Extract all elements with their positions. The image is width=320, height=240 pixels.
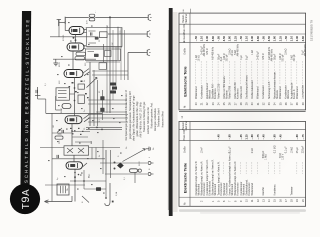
solder speck bbox=[92, 120, 94, 121]
wire bbox=[65, 16, 89, 18]
wire bbox=[84, 32, 87, 34]
table corner tab bbox=[183, 8, 191, 13]
solder speck bbox=[80, 175, 82, 176]
table row 27 bbox=[233, 36, 239, 106]
wire bbox=[87, 46, 123, 48]
svg-text:15 kΩ: 15 kΩ bbox=[285, 48, 288, 55]
svg-text:Widerstand: Widerstand bbox=[195, 86, 198, 99]
junction bbox=[78, 174, 80, 176]
capacitor C6 bbox=[61, 130, 63, 133]
wire bbox=[72, 51, 74, 70]
svg-text:0,3: 0,3 bbox=[99, 118, 101, 122]
svg-text:470 Ω: 470 Ω bbox=[206, 48, 209, 55]
svg-text:Sk: Sk bbox=[126, 147, 128, 149]
svg-text:2: 2 bbox=[201, 200, 204, 202]
wire bbox=[105, 173, 147, 175]
svg-text:–.50: –.50 bbox=[194, 36, 198, 42]
svg-text:1.10: 1.10 bbox=[200, 36, 204, 42]
mains cord bbox=[105, 183, 114, 206]
solder speck bbox=[58, 105, 60, 106]
solder speck bbox=[80, 134, 82, 135]
table row 12 bbox=[256, 134, 260, 202]
svg-text:1k: 1k bbox=[107, 26, 109, 28]
svg-text:Bestell-Nummer: Bestell-Nummer bbox=[182, 121, 188, 131]
svg-text:21: 21 bbox=[201, 102, 204, 105]
tick bbox=[83, 163, 87, 167]
loudspeaker jack bbox=[57, 20, 66, 27]
wire bbox=[84, 45, 86, 47]
solder speck bbox=[87, 74, 89, 75]
svg-text:2 kΩ: 2 kΩ bbox=[251, 148, 254, 153]
svg-text:8 µF: 8 µF bbox=[245, 55, 248, 60]
solder speck bbox=[91, 26, 93, 27]
table row 13 bbox=[261, 134, 267, 202]
svg-text:0,1 µF: 0,1 µF bbox=[285, 146, 288, 153]
solder speck bbox=[100, 168, 102, 169]
svg-text:27: 27 bbox=[234, 102, 237, 105]
svg-text:AM-ZF 468 kHz, FM-ZF 10,7 MHz.: AM-ZF 468 kHz, FM-ZF 10,7 MHz. bbox=[140, 101, 143, 137]
svg-text:31: 31 bbox=[257, 102, 260, 105]
ground bbox=[53, 59, 58, 66]
wire bbox=[40, 147, 64, 149]
wire bbox=[92, 70, 128, 72]
table row 30 bbox=[250, 36, 254, 106]
svg-text:AM 468 kHz: AM 468 kHz bbox=[237, 43, 240, 56]
table row 2 bbox=[200, 147, 206, 202]
solder speck bbox=[57, 74, 59, 75]
solder speck bbox=[75, 91, 77, 92]
svg-text:2.25: 2.25 bbox=[278, 36, 282, 42]
voltage notes bbox=[125, 89, 164, 141]
solder speck bbox=[91, 184, 93, 185]
svg-text:14: 14 bbox=[268, 199, 271, 202]
resistor R2 bbox=[75, 57, 85, 60]
wire bbox=[73, 155, 75, 162]
svg-text:37: 37 bbox=[291, 102, 294, 105]
solder speck bbox=[81, 81, 83, 83]
solder speck bbox=[121, 95, 123, 96]
junction bbox=[74, 180, 76, 182]
svg-text:0,1: 0,1 bbox=[124, 176, 126, 180]
svg-text:Sk: Sk bbox=[153, 148, 155, 150]
wire bbox=[50, 36, 96, 38]
wire bbox=[52, 158, 105, 160]
svg-text:0,1: 0,1 bbox=[45, 82, 47, 86]
table row 25 bbox=[222, 36, 228, 106]
svg-text:Größe: Größe bbox=[184, 146, 187, 153]
wire bbox=[134, 172, 136, 183]
table row 6 bbox=[223, 162, 229, 202]
svg-text:N: N bbox=[149, 168, 151, 170]
svg-text:–.50: –.50 bbox=[239, 36, 243, 42]
svg-text:4: 4 bbox=[212, 200, 215, 202]
svg-text:6: 6 bbox=[223, 200, 226, 202]
wire bbox=[88, 99, 127, 101]
table row 35 bbox=[278, 36, 284, 106]
svg-text:–.60: –.60 bbox=[250, 134, 254, 140]
wire bbox=[69, 93, 74, 95]
IF transformer B4 bbox=[64, 146, 89, 155]
svg-text:36: 36 bbox=[285, 102, 288, 105]
table row 8 bbox=[234, 161, 240, 202]
svg-text:L: L bbox=[149, 156, 151, 158]
table row 28 bbox=[239, 36, 243, 106]
svg-text:Widerstand: Widerstand bbox=[257, 86, 260, 99]
svg-text:12: 12 bbox=[257, 199, 260, 202]
capacitor C5 bbox=[78, 84, 84, 89]
wire bbox=[120, 28, 122, 80]
parts table group 2 bbox=[179, 121, 306, 207]
fuse F2 bbox=[84, 187, 106, 191]
svg-text:+ -: + - bbox=[95, 10, 97, 13]
wire bbox=[72, 131, 90, 133]
solder speck bbox=[113, 118, 115, 119]
wire bbox=[38, 98, 46, 100]
table row 26 bbox=[228, 36, 234, 106]
wire bbox=[88, 121, 128, 123]
wire bbox=[74, 78, 76, 116]
junction bbox=[74, 172, 76, 174]
wire bbox=[102, 140, 104, 174]
solder speck bbox=[112, 108, 114, 109]
AGC arrows bbox=[84, 115, 90, 122]
solder speck bbox=[70, 41, 72, 42]
wire bbox=[96, 111, 127, 113]
svg-text:300 pF: 300 pF bbox=[294, 54, 296, 62]
junction bbox=[74, 87, 76, 89]
svg-text:300: 300 bbox=[59, 140, 61, 144]
svg-text:25: 25 bbox=[99, 90, 101, 93]
terminal A7 bbox=[148, 173, 154, 176]
table row 23 bbox=[211, 36, 217, 106]
svg-text:0,1 µF: 0,1 µF bbox=[229, 146, 232, 153]
junction bbox=[74, 176, 76, 178]
wire bbox=[127, 53, 129, 81]
wire bbox=[84, 29, 87, 31]
svg-text:Größe: Größe bbox=[184, 47, 187, 54]
resistor R3 bbox=[99, 63, 106, 70]
switch S1 bbox=[114, 162, 124, 170]
svg-text:Tastensatz in Stellung TA gez.: Tastensatz in Stellung TA gez. bbox=[143, 101, 146, 132]
wire bbox=[84, 48, 86, 50]
solder speck bbox=[74, 130, 76, 131]
svg-text:32: 32 bbox=[262, 102, 265, 105]
solder speck bbox=[70, 128, 72, 129]
solder speck bbox=[88, 128, 90, 129]
wire bbox=[64, 17, 66, 30]
table row 20 bbox=[301, 134, 305, 202]
junction bbox=[83, 180, 85, 182]
wire bbox=[105, 150, 107, 173]
svg-text:1 kΩ: 1 kΩ bbox=[251, 50, 254, 55]
svg-text:29: 29 bbox=[246, 102, 249, 105]
junction bbox=[101, 129, 103, 131]
svg-text:Hannover West: Hannover West bbox=[161, 111, 164, 127]
IF transformer B3 bbox=[56, 88, 69, 100]
table row 20 bbox=[194, 36, 200, 106]
svg-text:28: 28 bbox=[240, 102, 243, 105]
terminal A6 bbox=[148, 162, 154, 165]
wire bbox=[51, 113, 53, 201]
svg-text:Widerstand: Widerstand bbox=[251, 183, 254, 196]
wire bbox=[56, 109, 62, 111]
table row 9 bbox=[239, 134, 245, 202]
junction bbox=[74, 177, 76, 179]
svg-text:10 kΩ: 10 kΩ bbox=[198, 55, 200, 61]
solder speck bbox=[78, 128, 80, 129]
wire bbox=[52, 132, 72, 134]
svg-text:–.75: –.75 bbox=[301, 134, 305, 140]
wire bbox=[55, 96, 57, 110]
page fold bar bbox=[168, 8, 178, 216]
svg-text:T9A: T9A bbox=[20, 189, 32, 209]
tube V2 bbox=[67, 43, 84, 51]
svg-text:11: 11 bbox=[251, 199, 254, 202]
solder speck bbox=[79, 143, 81, 144]
solder speck bbox=[48, 160, 50, 161]
svg-text:Gleichri: Gleichri bbox=[262, 187, 265, 196]
table row 14 bbox=[268, 162, 271, 202]
svg-text:470: 470 bbox=[87, 20, 89, 24]
svg-text:AM 468 kHz: AM 468 kHz bbox=[304, 43, 307, 56]
svg-text:5k: 5k bbox=[85, 45, 87, 47]
table row 34 bbox=[273, 36, 279, 106]
solder speck bbox=[103, 193, 105, 194]
wire bbox=[108, 33, 145, 35]
table row 5 bbox=[217, 134, 223, 202]
paper edge shadow bbox=[179, 209, 306, 212]
table row 38 bbox=[295, 36, 299, 106]
parts table group 1 bbox=[179, 13, 307, 111]
wire bbox=[95, 148, 97, 159]
svg-text:Widerstand: Widerstand bbox=[279, 86, 282, 99]
wire bbox=[74, 169, 76, 201]
svg-text:5: 5 bbox=[218, 200, 221, 202]
trimmer T1 bbox=[57, 128, 62, 134]
svg-text:50: 50 bbox=[84, 127, 86, 130]
electrolytic capacitor C1 470 bbox=[87, 14, 95, 24]
wire bbox=[109, 17, 111, 113]
wire bbox=[86, 128, 122, 130]
wire bbox=[110, 150, 112, 178]
wire bbox=[89, 147, 120, 149]
svg-text:1.80: 1.80 bbox=[273, 36, 277, 42]
terminal A1 bbox=[146, 14, 152, 21]
svg-text:Nr.: Nr. bbox=[184, 105, 187, 108]
svg-text:125 V: 125 V bbox=[283, 153, 285, 159]
svg-text:Kondensator: Kondensator bbox=[262, 85, 265, 99]
junction bbox=[105, 197, 107, 199]
solder speck bbox=[72, 133, 74, 134]
solder speck bbox=[57, 141, 59, 142]
svg-text:0,2 MΩ: 0,2 MΩ bbox=[274, 145, 277, 153]
svg-text:Lautsprecher: Lautsprecher bbox=[302, 85, 305, 99]
svg-text:Kondensa: Kondensa bbox=[274, 184, 277, 196]
dial lamp arrow bbox=[123, 149, 146, 162]
tube V5 bbox=[66, 162, 83, 169]
svg-text:Preis DM: Preis DM bbox=[183, 24, 186, 34]
solder speck bbox=[87, 97, 89, 98]
svg-text:23: 23 bbox=[212, 102, 215, 105]
svg-text:39: 39 bbox=[302, 102, 305, 105]
svg-text:Nr.: Nr. bbox=[184, 202, 187, 205]
svg-text:1.10: 1.10 bbox=[290, 36, 294, 42]
svg-text:20: 20 bbox=[195, 102, 198, 105]
svg-text:–.95: –.95 bbox=[217, 36, 221, 42]
table row 7 bbox=[228, 134, 234, 202]
svg-text:16: 16 bbox=[279, 199, 282, 202]
junction bbox=[75, 39, 77, 41]
table row 4 bbox=[212, 159, 218, 202]
wire bbox=[45, 184, 85, 186]
wire bbox=[86, 61, 120, 63]
svg-text:Telefunken GmbH: Telefunken GmbH bbox=[159, 108, 161, 127]
table row 17 bbox=[285, 146, 288, 202]
svg-text:50: 50 bbox=[99, 39, 101, 42]
output transformer OT1 bbox=[57, 184, 69, 195]
svg-text:1 MΩ: 1 MΩ bbox=[266, 154, 268, 160]
svg-text:30: 30 bbox=[251, 102, 254, 105]
svg-text:2.40: 2.40 bbox=[205, 36, 209, 42]
svg-text:12: 12 bbox=[181, 115, 184, 118]
svg-text:S: S bbox=[118, 155, 120, 157]
svg-text:19: 19 bbox=[296, 199, 299, 202]
wire bbox=[45, 99, 47, 113]
svg-text:2k: 2k bbox=[84, 80, 86, 82]
svg-text:AM 468 kHz: AM 468 kHz bbox=[212, 46, 215, 60]
svg-text:10 kΩ: 10 kΩ bbox=[290, 147, 293, 154]
wire bbox=[105, 173, 107, 198]
tube V1 bbox=[69, 27, 84, 35]
svg-text:N: N bbox=[82, 201, 84, 203]
svg-text:9: 9 bbox=[240, 200, 243, 202]
solder speck bbox=[97, 132, 99, 133]
wire bbox=[103, 44, 105, 62]
svg-text:–.40: –.40 bbox=[261, 134, 265, 140]
resistor R5 bbox=[100, 96, 104, 100]
svg-text:Elektrische Teile: Elektrische Teile bbox=[182, 65, 187, 96]
svg-text:Oszillatorspule keram.: Oszillatorspule keram. bbox=[245, 75, 248, 99]
svg-text:Drehkondensator: Drehkondensator bbox=[251, 80, 254, 99]
svg-text:Preis DM: Preis DM bbox=[183, 130, 186, 140]
svg-text:2.25: 2.25 bbox=[233, 36, 237, 42]
fuse F1 bbox=[130, 169, 142, 173]
wire bbox=[70, 180, 106, 182]
svg-text:derungen vorbehalten.: derungen vorbehalten. bbox=[154, 107, 157, 131]
table row 37 bbox=[290, 36, 296, 106]
svg-text:–.45: –.45 bbox=[278, 134, 282, 140]
svg-text:3.60: 3.60 bbox=[301, 36, 305, 42]
svg-text:Bestell-Nummer: Bestell-Nummer bbox=[182, 14, 188, 24]
wire bbox=[106, 25, 108, 113]
wire bbox=[101, 90, 103, 120]
wire bbox=[89, 62, 91, 126]
wire bbox=[93, 70, 95, 126]
svg-text:Röhre ECC85: Röhre ECC85 bbox=[217, 83, 220, 99]
wire bbox=[128, 52, 145, 54]
svg-text:Widerstand: Widerstand bbox=[296, 86, 299, 99]
wire bbox=[75, 35, 77, 44]
T9A badge bbox=[10, 184, 40, 214]
svg-text:4 µF: 4 µF bbox=[240, 55, 243, 60]
svg-text:Rückseite gesehen. Änd.: Rückseite gesehen. Änd. bbox=[150, 102, 153, 128]
svg-text:0,2A: 0,2A bbox=[115, 191, 118, 196]
svg-text:18: 18 bbox=[291, 199, 294, 202]
svg-text:10: 10 bbox=[246, 199, 249, 202]
wire bbox=[71, 124, 73, 146]
svg-text:EF89: EF89 bbox=[59, 61, 61, 67]
svg-text:–.60: –.60 bbox=[295, 134, 299, 140]
solder speck bbox=[87, 158, 89, 159]
svg-text:220 pF: 220 pF bbox=[302, 145, 305, 153]
solder speck bbox=[77, 92, 79, 93]
wire bbox=[82, 196, 89, 203]
svg-text:TA: TA bbox=[66, 188, 69, 191]
diode D1 bbox=[62, 104, 71, 109]
wire bbox=[65, 30, 69, 32]
svg-text:Elektrische Teile: Elektrische Teile bbox=[182, 162, 187, 193]
capacitor C7 bbox=[56, 155, 58, 158]
solder speck bbox=[69, 86, 71, 87]
svg-text:25 µF: 25 µF bbox=[296, 146, 299, 153]
wire bbox=[75, 141, 92, 143]
table row 10 bbox=[245, 134, 251, 202]
wire bbox=[83, 170, 85, 189]
capacitor C3 bbox=[105, 51, 112, 57]
svg-text:470 Ω: 470 Ω bbox=[262, 53, 265, 60]
table row 39 bbox=[301, 36, 307, 106]
solder speck bbox=[81, 108, 83, 109]
solder speck bbox=[97, 151, 99, 152]
svg-text:17: 17 bbox=[285, 199, 288, 202]
svg-text:10k: 10k bbox=[112, 89, 114, 92]
svg-text:Kondensator: Kondensator bbox=[200, 85, 203, 99]
table row 19 bbox=[295, 134, 299, 202]
wire bbox=[95, 16, 146, 18]
table row 31 bbox=[256, 36, 260, 106]
table row 3 bbox=[206, 159, 212, 195]
svg-text:Trimmer: Trimmer bbox=[290, 186, 293, 195]
junction bbox=[109, 16, 111, 18]
terminal A3 bbox=[145, 49, 151, 56]
svg-text:2k: 2k bbox=[99, 155, 101, 157]
svg-text:zeichnet. Schalter von der: zeichnet. Schalter von der bbox=[147, 107, 150, 134]
svg-text:EABC80: EABC80 bbox=[64, 15, 67, 24]
table row 18 bbox=[290, 147, 293, 202]
wire bbox=[124, 30, 126, 80]
svg-text:4.50: 4.50 bbox=[222, 36, 226, 42]
svg-text:–.35: –.35 bbox=[239, 134, 243, 140]
tube V3 bbox=[64, 70, 83, 78]
wire bbox=[88, 117, 128, 119]
AGC arrows V3 bbox=[84, 69, 90, 76]
wire bbox=[100, 162, 147, 164]
svg-text:50 pF: 50 pF bbox=[274, 53, 277, 60]
svg-text:33: 33 bbox=[268, 102, 271, 105]
svg-text:–.80: –.80 bbox=[228, 134, 232, 140]
wire bbox=[112, 30, 114, 100]
svg-text:3.60: 3.60 bbox=[211, 36, 215, 42]
svg-text:38: 38 bbox=[296, 102, 299, 105]
solder speck bbox=[68, 22, 70, 23]
table row 24 bbox=[217, 36, 223, 106]
solder speck bbox=[64, 176, 66, 177]
svg-text:ECH81: ECH81 bbox=[63, 34, 65, 41]
wire bbox=[97, 80, 99, 126]
terminal A5 bbox=[146, 147, 155, 151]
solder speck bbox=[66, 129, 68, 130]
table row 29 bbox=[245, 36, 249, 106]
